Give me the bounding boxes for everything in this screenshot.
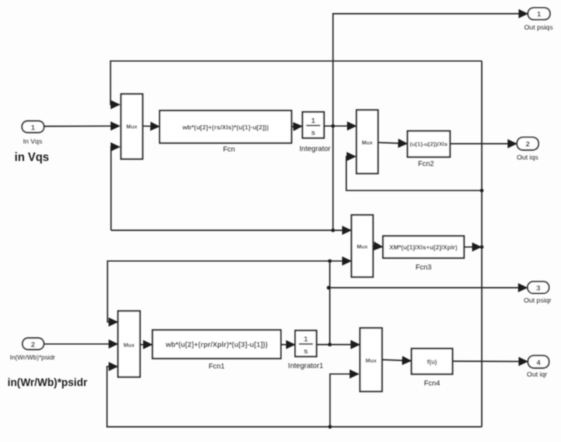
svg-text:Fcn1: Fcn1 — [209, 362, 225, 371]
svg-text:Out psiqr: Out psiqr — [524, 298, 552, 305]
svg-text:Fcn: Fcn — [223, 145, 235, 154]
fcn block Fcn — [160, 111, 292, 154]
wire Integrator out to Mux2 input 1 — [324, 125, 356, 127]
mux Mux3 — [352, 215, 374, 277]
svg-text:in Vqs: in Vqs — [15, 152, 50, 164]
svg-text:Out iqs: Out iqs — [517, 154, 539, 161]
wire Mux5 out to Fcn4 — [382, 360, 411, 361]
svg-text:(u[1]-u[2])/Xls: (u[1]-u[2])/Xls — [410, 142, 449, 148]
svg-text:Mux: Mux — [124, 343, 136, 349]
svg-text:XM*(u[1]/Xls+u[2]/Xplr): XM*(u[1]/Xls+u[2]/Xplr) — [389, 245, 457, 252]
input port 2 In(Wr/Wb)*psidr — [10, 338, 56, 362]
svg-text:f(u): f(u) — [427, 359, 437, 366]
svg-text:wb*(u[2]+(rs/Xls)*(u[1]-u[2])): wb*(u[2]+(rs/Xls)*(u[1]-u[2])) — [181, 124, 268, 131]
junction integrator out / Out1 riser — [331, 124, 335, 128]
wire Integrator1 out to Mux5 input 1 — [317, 344, 360, 346]
svg-text:Fcn2: Fcn2 — [418, 159, 434, 168]
wire net psiqr: y=261 line to Mux3 input 2 and left to Mux4 input 1 — [330, 260, 351, 262]
svg-text:2: 2 — [31, 340, 35, 349]
output port 3 Out psiqr — [524, 282, 552, 305]
svg-text:1: 1 — [31, 123, 35, 132]
input port 1 In Vqs — [22, 121, 44, 146]
svg-text:Mux: Mux — [362, 140, 374, 146]
svg-text:Fcn4: Fcn4 — [424, 379, 440, 388]
wire psimq branch to Mux2 input 2 — [346, 157, 482, 191]
wire net psiqr: riser from Integrator1 out up to y=261 — [329, 261, 331, 345]
wire net psiqs feedback: y=230 line — [111, 229, 351, 231]
svg-text:Mux: Mux — [357, 245, 369, 251]
svg-text:Out iqr: Out iqr — [527, 372, 548, 379]
junction bottom psimq to Mux5 — [328, 425, 332, 429]
wire Out3 psiqr line — [329, 287, 527, 289]
wire Fcn3 out to psimq bus — [464, 246, 481, 248]
wire Fcn to Integrator — [292, 125, 303, 128]
svg-text:s: s — [311, 128, 315, 137]
wire psiqs riser to Out1 — [333, 14, 528, 231]
svg-text:in(Wr/Wb)*psidr: in(Wr/Wb)*psidr — [8, 377, 88, 389]
integrator block Integrator — [299, 112, 331, 153]
junction Out3 branch — [327, 286, 331, 290]
output port 4 Out iqr — [527, 356, 549, 379]
fcn block Fcn4 — [412, 349, 453, 388]
svg-text:Out psiqs: Out psiqs — [524, 25, 553, 32]
junction Integrator1 out — [328, 343, 332, 347]
junction psimq bus at Fcn3 out — [480, 245, 484, 249]
wire Mux2 out to Fcn2 — [378, 143, 407, 144]
junction psiqs line at riser — [331, 229, 335, 233]
svg-text:1: 1 — [537, 10, 541, 19]
svg-text:Mux: Mux — [366, 358, 378, 364]
integrator block Integrator1 — [288, 331, 323, 370]
wire net psimq: right vertical bus — [481, 61, 483, 427]
wire In1 to Mux1 input 2 — [44, 125, 120, 127]
wire Fcn1 to Integrator1 — [281, 344, 295, 346]
wire Mux1 output to Fcn — [143, 125, 160, 128]
wire Mux3 out to Fcn3 — [373, 245, 383, 248]
output port 1 Out psiqs — [524, 8, 553, 32]
wire psimq branch to Mux5 input 2 — [330, 374, 359, 427]
output port 2 Out iqs — [517, 137, 539, 161]
svg-text:In(Wr/Wb)*psidr: In(Wr/Wb)*psidr — [10, 355, 56, 362]
svg-text:s: s — [304, 346, 308, 355]
mux Mux2 — [357, 110, 379, 174]
mux Mux5 — [360, 328, 382, 391]
wire net psimq: top edge to Mux1 input 1 — [111, 61, 482, 105]
wire Fcn2 out to Out2 — [450, 143, 517, 145]
fcn block Fcn3 — [383, 236, 464, 272]
svg-text:3: 3 — [536, 283, 540, 292]
svg-text:1: 1 — [311, 116, 315, 125]
mux Mux1 — [121, 94, 143, 159]
junction psiqr line to Mux3 — [328, 259, 332, 263]
svg-text:1: 1 — [304, 335, 308, 344]
svg-text:Mux: Mux — [126, 125, 138, 131]
mux Mux4 — [118, 311, 140, 377]
wire Mux4 out to Fcn1 — [140, 344, 152, 346]
wire Fcn4 out to Out4 — [453, 360, 528, 362]
svg-text:2: 2 — [526, 140, 530, 149]
svg-text:In Vqs: In Vqs — [23, 139, 43, 146]
svg-text:Integrator: Integrator — [299, 144, 331, 153]
svg-text:wb*(u[2]+(rpr/Xplr)*(u[3]-u[1]: wb*(u[2]+(rpr/Xplr)*(u[3]-u[1])) — [165, 340, 269, 349]
fcn block Fcn2 — [408, 131, 451, 168]
fcn block Fcn1 — [153, 330, 281, 371]
svg-text:Integrator1: Integrator1 — [288, 361, 323, 370]
junction psimq bus to Mux2 line — [480, 189, 484, 193]
wire net psimq: bottom edge — [107, 367, 482, 427]
svg-text:Fcn3: Fcn3 — [416, 263, 432, 272]
wire In2 to Mux4 input 2 — [44, 343, 118, 345]
